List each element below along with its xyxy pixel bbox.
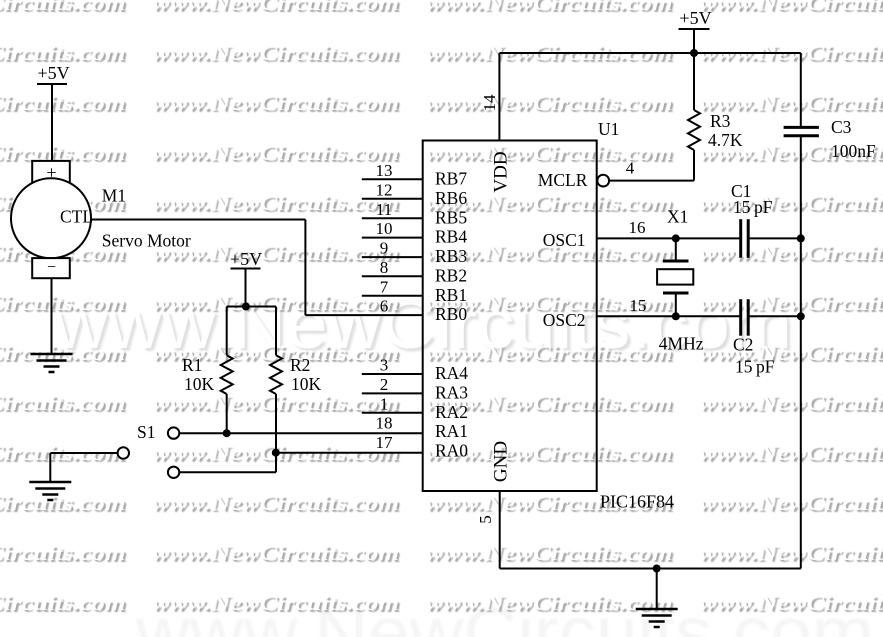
bottom ground rail (500, 568, 801, 570)
svg-text:+5V: +5V (37, 63, 69, 83)
svg-text:RA4: RA4 (435, 363, 468, 383)
svg-text:M1: M1 (102, 186, 126, 206)
svg-text:6: 6 (380, 297, 389, 316)
svg-text:www.NewCircuits.com: www.NewCircuits.com (426, 0, 673, 15)
svg-text:www.NewCircuits.com: www.NewCircuits.com (152, 541, 399, 565)
svg-text:12: 12 (376, 180, 393, 199)
svg-text:www.NewCircuits.com: www.NewCircuits.com (0, 41, 126, 65)
svg-text:www.NewCircuits.com: www.NewCircuits.com (699, 341, 883, 365)
svg-text:15 pF: 15 pF (733, 197, 773, 217)
svg-text:www.NewCircuits.com: www.NewCircuits.com (699, 491, 883, 515)
svg-text:www.NewCircuits.com: www.NewCircuits.com (152, 91, 399, 115)
ground (S1) (29, 481, 71, 484)
capacitor C2 (739, 299, 742, 336)
svg-text:4.7K: 4.7K (708, 130, 743, 150)
pin 11 RB5 (362, 217, 423, 219)
svg-text:RB2: RB2 (435, 265, 467, 285)
svg-text:www.NewCircuits.com: www.NewCircuits.com (699, 391, 883, 415)
op IC U1 PIC16F84 (423, 141, 597, 492)
pin 13 RB7 (362, 178, 423, 180)
wire R1 top to R2 top (227, 306, 276, 308)
svg-text:15 pF: 15 pF (735, 357, 775, 377)
svg-text:OSC1: OSC1 (543, 230, 586, 250)
svg-text:100nF: 100nF (831, 141, 876, 161)
svg-text:www.NewCircuits.com: www.NewCircuits.com (0, 391, 126, 415)
node rail/ground (653, 565, 661, 573)
svg-text:4: 4 (626, 159, 635, 178)
svg-text:13: 13 (376, 161, 393, 180)
wire S1 lower contact (179, 471, 276, 473)
svg-text:R1: R1 (182, 355, 202, 375)
svg-text:RB6: RB6 (435, 188, 467, 208)
wire RA0 (276, 452, 423, 454)
svg-text:CTL: CTL (60, 207, 93, 227)
svg-text:10: 10 (376, 219, 393, 238)
svg-text:RB7: RB7 (435, 168, 467, 188)
svg-text:R3: R3 (710, 111, 731, 131)
svg-text:9: 9 (380, 239, 389, 258)
ground (motor) (31, 353, 73, 356)
capacitor C3 (800, 53, 802, 127)
svg-text:www.NewCircuits.com: www.NewCircuits.com (426, 591, 673, 615)
svg-text:C2: C2 (733, 335, 753, 355)
svg-text:RB5: RB5 (435, 207, 467, 227)
svg-text:X1: X1 (667, 207, 688, 227)
svg-text:www.NewCircuits.com: www.NewCircuits.com (0, 541, 126, 565)
svg-text:Servo Motor: Servo Motor (102, 231, 191, 251)
svg-text:www.NewCircuits.com: www.NewCircuits.com (426, 91, 673, 115)
pin 9 RB3 (362, 256, 423, 258)
S1 contact circles (168, 427, 179, 438)
svg-text:RB3: RB3 (435, 246, 467, 266)
node R1/RA1 (223, 429, 231, 437)
svg-text:www.NewCircuits.com: www.NewCircuits.com (699, 0, 883, 15)
svg-text:11: 11 (376, 200, 392, 219)
svg-text:S1: S1 (137, 422, 155, 442)
pin 10 RB4 (362, 237, 423, 239)
svg-text:−: − (47, 259, 56, 276)
svg-text:www.NewCircuits.com: www.NewCircuits.com (426, 541, 673, 565)
svg-text:www.NewCircuits.com: www.NewCircuits.com (0, 591, 126, 615)
wire MCLR to R3 (609, 180, 694, 182)
pin 1 RA2 (362, 412, 423, 414)
svg-text:10K: 10K (184, 374, 215, 394)
svg-text:PIC16F84: PIC16F84 (600, 492, 674, 512)
svg-text:10K: 10K (291, 374, 322, 394)
svg-text:www.NewCircuits.com: www.NewCircuits.com (152, 591, 399, 615)
node +5V/rail (690, 49, 698, 57)
svg-text:16: 16 (629, 218, 646, 237)
pin 3 RA4 (362, 373, 423, 375)
svg-text:4MHz: 4MHz (659, 334, 704, 354)
svg-text:RB1: RB1 (435, 285, 467, 305)
svg-text:MCLR: MCLR (538, 170, 588, 190)
ground (rail) (636, 608, 678, 611)
svg-text:www.NewCircuits.com: www.NewCircuits.com (426, 341, 673, 365)
svg-text:www.NewCircuits.com: www.NewCircuits.com (0, 291, 126, 315)
pin 12 RB6 (362, 198, 423, 200)
svg-text:1: 1 (380, 394, 389, 413)
svg-text:+5V: +5V (679, 8, 711, 28)
svg-text:5: 5 (476, 515, 495, 524)
wire OSC1 (597, 237, 741, 239)
wire +5V to R1/R2 (245, 269, 247, 307)
svg-text:RA2: RA2 (435, 402, 468, 422)
svg-text:www.NewCircuits.com: www.NewCircuits.com (699, 591, 883, 615)
wire to ground (656, 569, 658, 610)
svg-text:8: 8 (380, 258, 389, 277)
svg-text:RB4: RB4 (435, 227, 467, 247)
svg-text:www.NewCircuits.com: www.NewCircuits.com (0, 491, 126, 515)
wire RA1 (179, 432, 422, 434)
svg-text:18: 18 (376, 414, 393, 433)
wire motor to ground (51, 278, 53, 354)
svg-text:www.NewCircuits.com: www.NewCircuits.com (152, 191, 399, 215)
VDD top rail (499, 52, 800, 54)
node R2/RA0 (272, 449, 280, 457)
capacitor C1 (739, 219, 742, 258)
svg-text:www.NewCircuits.com: www.NewCircuits.com (152, 491, 399, 515)
svg-text:C3: C3 (831, 117, 852, 137)
svg-text:OSC2: OSC2 (543, 310, 586, 330)
svg-text:www.NewCircuits.com: www.NewCircuits.com (699, 241, 883, 265)
svg-text:7: 7 (380, 277, 389, 296)
svg-text:www.NewCircuits.com: www.NewCircuits.com (699, 191, 883, 215)
pin 7 RB1 (362, 295, 423, 297)
svg-text:www.NewCircuits.com: www.NewCircuits.com (426, 141, 673, 165)
svg-text:17: 17 (376, 433, 394, 452)
svg-text:RB0: RB0 (435, 304, 467, 324)
svg-text:15: 15 (630, 296, 647, 315)
svg-text:www.NewCircuits.com: www.NewCircuits.com (0, 91, 126, 115)
svg-text:RA1: RA1 (435, 421, 468, 441)
wire motor CTL to RB0 (91, 219, 305, 221)
svg-text:www.NewCircuits.com: www.NewCircuits.com (699, 441, 883, 465)
motor M1 (32, 161, 70, 183)
svg-text:RA3: RA3 (435, 382, 468, 402)
wire GND pin 5 (499, 491, 501, 569)
pin 8 RB2 (362, 275, 423, 277)
svg-text:www.NewCircuits.com: www.NewCircuits.com (152, 41, 399, 65)
svg-text:GND: GND (491, 441, 512, 482)
svg-text:U1: U1 (598, 119, 619, 139)
resistor R2 (275, 307, 277, 356)
svg-text:www.NewCircuits.com: www.NewCircuits.com (699, 291, 883, 315)
svg-text:3: 3 (380, 356, 389, 375)
wire +5V to motor (51, 84, 53, 162)
resistor R3 (693, 53, 695, 110)
svg-text:www.NewCircuits.com: www.NewCircuits.com (699, 541, 883, 565)
wire OSC2 (597, 315, 741, 317)
pin 2 RA3 (362, 392, 423, 394)
svg-text:www.NewCircuits.com: www.NewCircuits.com (152, 141, 399, 165)
svg-text:www.NewCircuits.com: www.NewCircuits.com (152, 0, 399, 15)
wire VDD pin 14 (498, 53, 500, 141)
svg-text:VDD: VDD (491, 151, 512, 192)
svg-text:R2: R2 (290, 355, 310, 375)
wire S1 common to ground (50, 452, 117, 454)
svg-text:RA0: RA0 (435, 441, 468, 461)
svg-text:14: 14 (480, 94, 499, 112)
svg-text:www.NewCircuits.com: www.NewCircuits.com (0, 0, 126, 15)
svg-text:+5V: +5V (230, 249, 262, 269)
resistor R1 (226, 307, 228, 356)
node +5V/R1/R2 (242, 303, 250, 311)
svg-text:2: 2 (380, 375, 389, 394)
